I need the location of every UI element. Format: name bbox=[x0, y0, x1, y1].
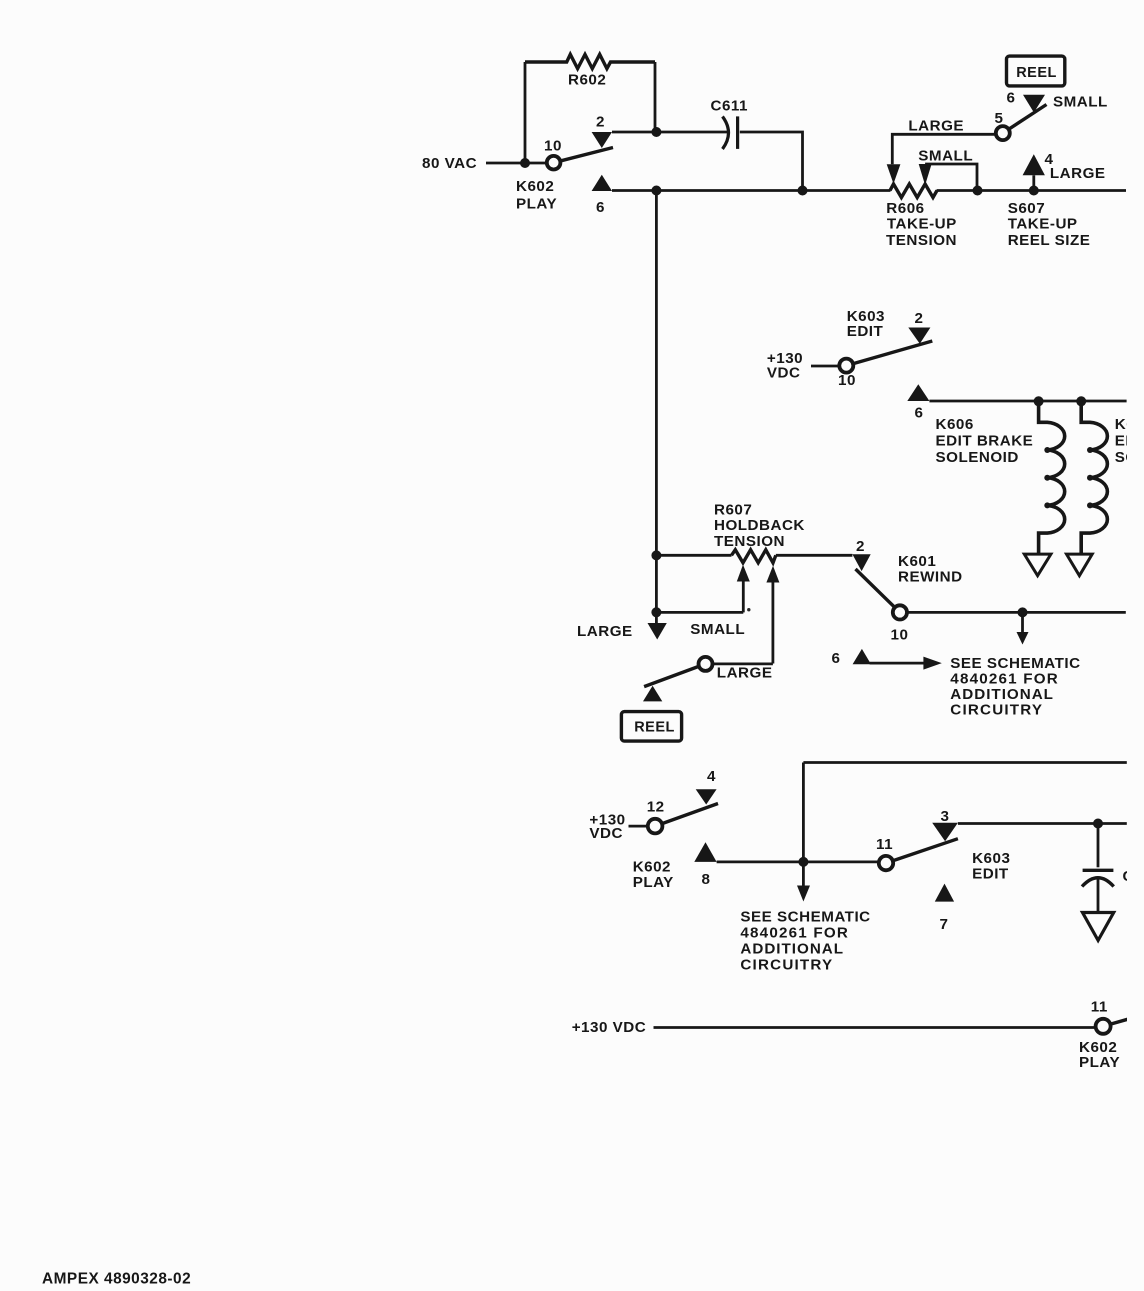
node junction capacitor bbox=[1093, 819, 1103, 829]
wire K602 pin8 rail bbox=[717, 861, 879, 864]
svg-text:K602: K602 bbox=[516, 178, 554, 195]
svg-text:ADDITIONAL: ADDITIONAL bbox=[950, 686, 1054, 703]
pin number 4 (K602 lower) bbox=[707, 768, 716, 785]
wire S607 pin4 stub bbox=[1032, 175, 1035, 190]
REEL box S607 bbox=[1007, 56, 1065, 86]
svg-text:REWIND: REWIND bbox=[898, 569, 963, 586]
svg-text:R602: R602 bbox=[568, 72, 606, 89]
label LARGE (reel switch) bbox=[717, 665, 773, 682]
node junction R607 left bbox=[651, 550, 661, 560]
svg-text:2: 2 bbox=[856, 538, 865, 555]
svg-text:8: 8 bbox=[702, 871, 711, 888]
pin number 5 (S607) bbox=[995, 110, 1004, 127]
svg-text:TENSION: TENSION bbox=[714, 533, 785, 550]
note SEE SCHEMATIC 4840261 (K602) bbox=[740, 909, 870, 974]
svg-text:80 VAC: 80 VAC bbox=[422, 155, 477, 172]
node junction pin8 rail bbox=[798, 857, 808, 867]
label LARGE (holdback) bbox=[577, 623, 633, 640]
svg-text:EDIT: EDIT bbox=[972, 866, 1009, 883]
label 80 VAC bbox=[422, 155, 477, 172]
wire R606 wiper loop bbox=[925, 164, 977, 191]
node junction solenoid K606 bbox=[1034, 396, 1044, 406]
label K603 EDIT bbox=[847, 308, 885, 340]
svg-text:K607: K607 bbox=[1115, 416, 1144, 433]
svg-text:R606: R606 bbox=[886, 200, 924, 217]
switch pivot S607 pin 5 bbox=[996, 126, 1010, 140]
svg-text:EDIT: EDIT bbox=[847, 323, 884, 340]
wire main rail y190 right bbox=[937, 189, 1127, 192]
svg-text:S607: S607 bbox=[1008, 200, 1045, 217]
svg-text:SOLENOID: SOLENOID bbox=[936, 449, 1019, 466]
label SMALL (R606 wiper) bbox=[918, 148, 973, 165]
svg-text:5: 5 bbox=[995, 110, 1004, 127]
svg-text:11: 11 bbox=[876, 836, 893, 853]
wire long vertical bus bbox=[655, 191, 658, 613]
switch blade reel switch bbox=[644, 664, 705, 687]
ground K607 solenoid bbox=[1067, 554, 1093, 576]
svg-text:K603: K603 bbox=[972, 850, 1010, 867]
pin number 7 (K603) bbox=[940, 916, 949, 933]
wire 80 VAC input bbox=[486, 162, 550, 165]
relay contact K602 pin 4 bbox=[696, 789, 717, 804]
pin number 11 (K602 bottom) bbox=[1091, 999, 1108, 1016]
relay contact K602 pin 6 bbox=[592, 175, 612, 191]
svg-text:SMALL: SMALL bbox=[918, 148, 973, 165]
node junction solenoid K607 bbox=[1076, 396, 1086, 406]
switch blade K603 bbox=[846, 341, 932, 366]
wire +130 to K602 pin12 bbox=[629, 825, 651, 828]
solenoid K607 loop cusps bbox=[1087, 447, 1093, 508]
svg-text:SOLENOID: SOLENOID bbox=[1115, 449, 1144, 466]
pin number 10 (K602) bbox=[544, 138, 562, 155]
label +130 VDC (K603) bbox=[767, 350, 803, 381]
relay contact K602 pin 2 bbox=[592, 132, 612, 148]
label SMALL (holdback) bbox=[690, 621, 745, 638]
wire R607 left bbox=[656, 554, 731, 557]
speck dot bbox=[747, 608, 750, 611]
node junction pin6 rail bbox=[651, 186, 661, 196]
arrow large wiper R607 bbox=[766, 566, 779, 664]
switch pivot K603 pin 10 bbox=[839, 359, 853, 373]
pin number 3 (K603) bbox=[941, 808, 950, 825]
svg-text:ADDITIONAL: ADDITIONAL bbox=[740, 941, 844, 958]
svg-text:6: 6 bbox=[915, 405, 924, 422]
svg-text:K602: K602 bbox=[633, 859, 671, 876]
pin number 8 (K602) bbox=[702, 871, 711, 888]
note SEE SCHEMATIC 4840261 (K601) bbox=[950, 655, 1080, 719]
svg-text:10: 10 bbox=[838, 372, 856, 389]
switch pivot K602 pin 11 bbox=[1096, 1019, 1111, 1034]
pin number 12 (K602) bbox=[647, 799, 665, 816]
switch pivot reel switch bbox=[699, 657, 713, 671]
relay contact K603 pin 7 bbox=[935, 884, 954, 902]
svg-text:LARGE: LARGE bbox=[908, 118, 964, 135]
svg-text:SMALL: SMALL bbox=[690, 621, 745, 638]
svg-text:10: 10 bbox=[544, 138, 562, 155]
svg-text:+130 VDC: +130 VDC bbox=[572, 1019, 647, 1036]
svg-text:SEE SCHEMATIC: SEE SCHEMATIC bbox=[740, 909, 870, 926]
switch contact S607 pin 4 bbox=[1023, 154, 1045, 175]
svg-text:AMPEX 4890328-02: AMPEX 4890328-02 bbox=[42, 1271, 191, 1288]
relay contact K603 pin 6 bbox=[907, 384, 929, 401]
label K603 EDIT (lower) bbox=[972, 850, 1010, 883]
svg-text:LARGE: LARGE bbox=[1050, 165, 1106, 182]
switch blade K602 play bbox=[554, 148, 613, 163]
arrow down LARGE (holdback) bbox=[648, 613, 667, 640]
switch blade K602 lower bbox=[655, 804, 718, 827]
label AMPEX 4890328-02 bbox=[42, 1271, 191, 1288]
svg-text:4: 4 bbox=[707, 768, 716, 785]
svg-text:PLAY: PLAY bbox=[633, 874, 674, 891]
svg-text:EDIT BRAKE: EDIT BRAKE bbox=[1115, 433, 1144, 450]
pin number 10 (K601) bbox=[891, 627, 909, 644]
svg-text:K606: K606 bbox=[936, 416, 974, 433]
svg-text:PLAY: PLAY bbox=[1079, 1054, 1120, 1071]
label +130 VDC (K602 lower) bbox=[589, 812, 625, 843]
node junction C611 return bbox=[798, 186, 808, 196]
node junction K601 rail bbox=[1018, 607, 1028, 617]
REEL box lower bbox=[621, 712, 681, 742]
label K602 PLAY (bottom) bbox=[1079, 1039, 1120, 1071]
svg-text:2: 2 bbox=[915, 310, 924, 327]
arrow down see schematic (K602) bbox=[797, 863, 810, 902]
svg-text:12: 12 bbox=[647, 799, 665, 816]
svg-text:HOLDBACK: HOLDBACK bbox=[714, 517, 805, 534]
wire R607 right bbox=[776, 554, 853, 557]
svg-text:6: 6 bbox=[596, 199, 605, 216]
wire C611 to corner bbox=[740, 132, 803, 191]
svg-text:K601: K601 bbox=[898, 553, 936, 570]
switch contact reel small bbox=[643, 686, 662, 702]
svg-text:TAKE-UP: TAKE-UP bbox=[1008, 216, 1078, 233]
svg-text:REEL: REEL bbox=[634, 719, 675, 735]
svg-text:CIRCUITRY: CIRCUITRY bbox=[950, 702, 1043, 719]
wire S607 pin5 to R606 large end bbox=[892, 134, 996, 164]
svg-text:11: 11 bbox=[1091, 999, 1108, 1016]
svg-text:10: 10 bbox=[891, 627, 909, 644]
svg-text:VDC: VDC bbox=[589, 825, 623, 842]
node junction pin2 top bbox=[651, 127, 661, 137]
wire R602 left riser bbox=[524, 62, 527, 163]
label S607 TAKE-UP REEL SIZE bbox=[1008, 200, 1091, 249]
node junction R602 left bbox=[520, 158, 530, 168]
arrow large into R606 bbox=[887, 164, 901, 184]
svg-text:REEL SIZE: REEL SIZE bbox=[1008, 232, 1091, 249]
svg-text:SMALL: SMALL bbox=[1053, 94, 1108, 111]
node junction holdback bottom bbox=[651, 607, 661, 617]
svg-text:2: 2 bbox=[596, 114, 605, 131]
capacitor C611 bbox=[723, 116, 738, 149]
svg-text:4840261 FOR: 4840261 FOR bbox=[950, 671, 1059, 688]
pin number 11 (K603) bbox=[876, 836, 893, 853]
wire top rail lower section bbox=[803, 761, 1126, 764]
svg-text:R607: R607 bbox=[714, 502, 752, 519]
relay contact K601 pin 2 bbox=[852, 554, 870, 571]
svg-text:TAKE-UP: TAKE-UP bbox=[887, 216, 957, 233]
solenoid K606 loop cusps bbox=[1044, 447, 1050, 508]
wire pin2 to C611 bbox=[612, 131, 729, 134]
pin number 6 (K603) bbox=[915, 405, 924, 422]
svg-text:EDIT BRAKE: EDIT BRAKE bbox=[936, 433, 1034, 450]
svg-text:SEE SCHEMATIC: SEE SCHEMATIC bbox=[950, 655, 1080, 672]
wire K601 output rail bbox=[907, 611, 1126, 614]
switch contact S607 pin 6 bbox=[1023, 95, 1045, 113]
wire reel switch to large wiper bbox=[713, 663, 773, 666]
wire holdback small loop bbox=[656, 611, 743, 614]
svg-text:LARGE: LARGE bbox=[577, 623, 633, 640]
label C612 (clipped) bbox=[1123, 868, 1144, 885]
wire K603 pin3 rail bbox=[958, 822, 1127, 825]
relay contact K601 pin 6 bbox=[853, 649, 871, 664]
switch pivot K603 pin 11 bbox=[879, 839, 958, 871]
svg-text:PLAY: PLAY bbox=[516, 196, 557, 213]
label SMALL (S607) bbox=[1053, 94, 1108, 111]
label LARGE (S607 pin4) bbox=[1050, 165, 1106, 182]
svg-text:VDC: VDC bbox=[767, 365, 801, 382]
label R607 HOLDBACK TENSION bbox=[714, 502, 805, 551]
relay contact K603 pin 2 bbox=[908, 328, 930, 344]
label K602 PLAY bbox=[516, 178, 557, 213]
svg-text:6: 6 bbox=[1007, 90, 1016, 107]
ground capacitor bbox=[1083, 913, 1114, 941]
switch pivot K602 pin 12 bbox=[648, 819, 663, 834]
label K607 EDIT BRAKE SOLENOID (clipped) bbox=[1115, 416, 1144, 466]
wire riser to top rail bbox=[802, 763, 805, 862]
pin number 4 (S607) bbox=[1045, 151, 1054, 168]
capacitor C612 bbox=[1082, 824, 1114, 913]
arrow small wiper R607 bbox=[737, 565, 750, 613]
resistor R602 bbox=[525, 54, 655, 68]
svg-text:LARGE: LARGE bbox=[717, 665, 773, 682]
svg-text:C611: C611 bbox=[711, 98, 749, 115]
wire R602 right riser bbox=[654, 62, 657, 132]
pin number 6 (K601) bbox=[832, 650, 841, 667]
wire +130 to K603 pin10 bbox=[811, 365, 840, 368]
relay contact K602 pin 8 bbox=[694, 842, 716, 862]
solenoid K607 coil bbox=[1081, 401, 1107, 554]
label K602 PLAY (lower) bbox=[633, 859, 674, 892]
svg-text:CIRCUITRY: CIRCUITRY bbox=[740, 957, 833, 974]
label +130 VDC (bottom rail) bbox=[572, 1019, 647, 1036]
pin number 6 (K602) bbox=[596, 199, 605, 216]
svg-text:4840261 FOR: 4840261 FOR bbox=[740, 925, 849, 942]
switch blade K601 bbox=[856, 569, 900, 612]
label R602 bbox=[568, 72, 606, 89]
wire solenoid rail bbox=[929, 400, 1126, 403]
switch pivot K602 pin 10 bbox=[547, 156, 561, 170]
pin number 6 (S607) bbox=[1007, 90, 1016, 107]
relay contact K603 pin 3 bbox=[932, 823, 958, 842]
svg-text:7: 7 bbox=[940, 916, 949, 933]
label R606 TAKE-UP TENSION bbox=[886, 200, 957, 249]
pin number 10 (K603) bbox=[838, 372, 856, 389]
node junction S607 pin4 bbox=[1029, 186, 1039, 196]
svg-text:REEL: REEL bbox=[1016, 65, 1057, 81]
svg-text:6: 6 bbox=[832, 650, 841, 667]
switch blade S607 bbox=[1003, 105, 1047, 134]
node junction R606 wiper bbox=[973, 186, 983, 196]
pin number 2 (K603) bbox=[915, 310, 924, 327]
arrow down from K601 rail bbox=[1017, 614, 1029, 645]
arrow small wiper R606 bbox=[919, 164, 932, 185]
svg-text:TENSION: TENSION bbox=[886, 232, 957, 249]
label C611 bbox=[711, 98, 749, 115]
wire bottom +130 rail bbox=[654, 1026, 1097, 1029]
pin number 2 (K602) bbox=[596, 114, 605, 131]
potentiometer R607 bbox=[732, 550, 776, 563]
label K606 EDIT BRAKE SOLENOID bbox=[936, 416, 1034, 466]
switch pivot K601 pin 10 bbox=[893, 605, 907, 619]
solenoid K606 coil bbox=[1039, 401, 1065, 554]
svg-text:C612: C612 bbox=[1123, 868, 1144, 885]
switch blade K602 pin 11 bbox=[1103, 1019, 1128, 1026]
arrow see schematic (K601) bbox=[870, 657, 942, 670]
potentiometer R606 bbox=[890, 184, 937, 198]
label LARGE (S607 to R606) bbox=[908, 118, 964, 135]
label K601 REWIND bbox=[898, 553, 963, 586]
pin number 2 (K601) bbox=[856, 538, 865, 555]
wire main rail y190 left bbox=[612, 189, 891, 192]
ground K606 solenoid bbox=[1024, 554, 1051, 576]
svg-text:3: 3 bbox=[941, 808, 950, 825]
